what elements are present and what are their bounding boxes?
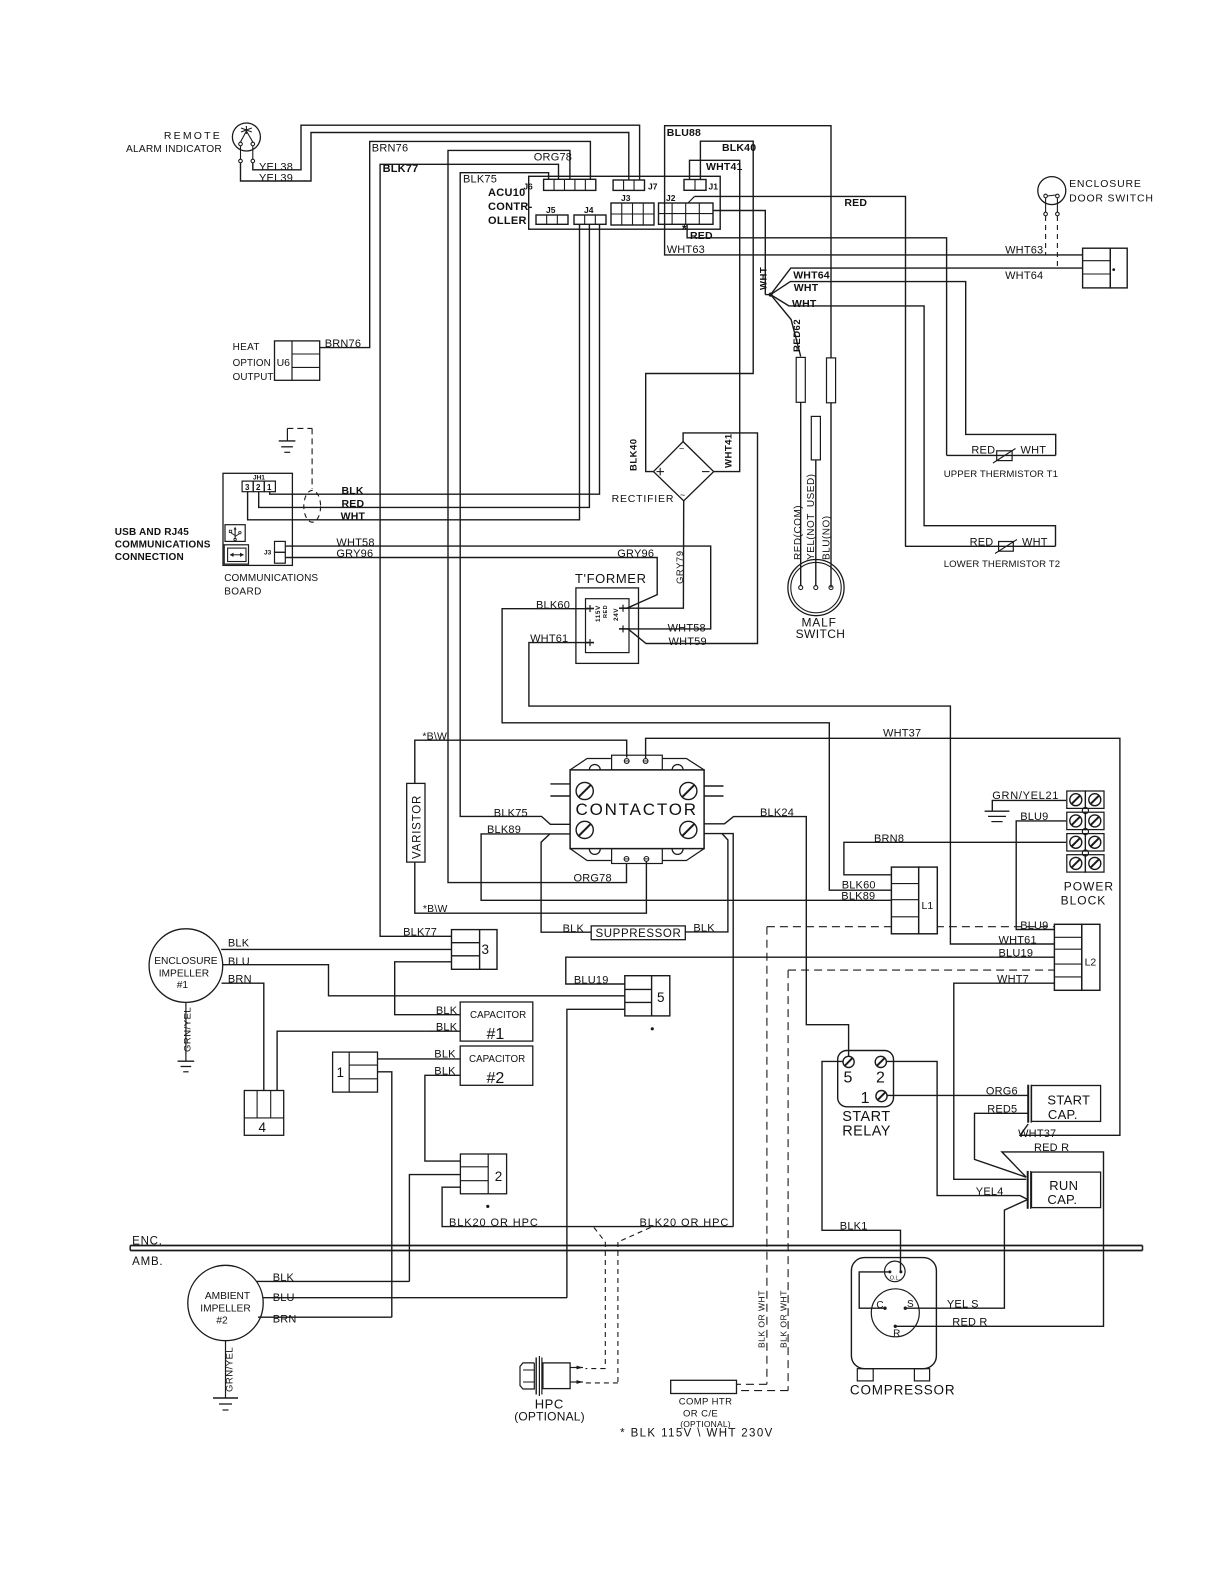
svg-text:WHT: WHT xyxy=(759,267,770,290)
svg-text:VARISTOR: VARISTOR xyxy=(412,795,424,859)
svg-text:3: 3 xyxy=(245,483,250,492)
svg-text:U6: U6 xyxy=(277,357,291,369)
svg-text:BLU19: BLU19 xyxy=(999,947,1034,959)
svg-text:J1: J1 xyxy=(709,182,719,192)
svg-text:*B\W: *B\W xyxy=(422,731,447,743)
svg-text:BRN76: BRN76 xyxy=(325,338,361,350)
svg-text:LOWER THERMISTOR T2: LOWER THERMISTOR T2 xyxy=(944,559,1061,570)
svg-text:~: ~ xyxy=(679,444,684,454)
svg-text:BLK40: BLK40 xyxy=(722,142,756,154)
svg-text:#2: #2 xyxy=(487,1070,505,1087)
svg-text:BLU9: BLU9 xyxy=(1020,920,1048,932)
svg-text:RED: RED xyxy=(844,197,867,209)
svg-text:OR C/E: OR C/E xyxy=(683,1409,718,1420)
svg-text:CAP.: CAP. xyxy=(1048,1107,1078,1122)
svg-text:BLK: BLK xyxy=(273,1272,295,1284)
svg-text:J2: J2 xyxy=(666,193,676,203)
svg-text:BLU: BLU xyxy=(228,956,250,968)
svg-text:RED: RED xyxy=(690,230,713,242)
svg-text:115V: 115V xyxy=(595,605,602,622)
svg-text:ORG6: ORG6 xyxy=(986,1086,1018,1098)
svg-text:POWER: POWER xyxy=(1064,880,1114,894)
svg-text:AMB.: AMB. xyxy=(132,1256,163,1268)
svg-text:BLK77: BLK77 xyxy=(403,927,437,939)
svg-text:USB AND RJ45: USB AND RJ45 xyxy=(115,527,190,538)
svg-text:BLK: BLK xyxy=(228,938,250,950)
svg-text:BLK OR WHT: BLK OR WHT xyxy=(779,1290,789,1348)
svg-text:WHT41: WHT41 xyxy=(724,433,735,468)
svg-text:WHT63: WHT63 xyxy=(1005,245,1043,257)
svg-text:BLK: BLK xyxy=(693,922,715,934)
svg-text:SWITCH: SWITCH xyxy=(796,627,846,641)
svg-text:J4: J4 xyxy=(584,205,594,215)
svg-text:* BLK 115V \ WHT 230V: * BLK 115V \ WHT 230V xyxy=(620,1428,774,1440)
svg-text:ALARM INDICATOR: ALARM INDICATOR xyxy=(126,144,222,155)
svg-text:GRN/YEL: GRN/YEL xyxy=(225,1347,236,1392)
svg-text:BLK77: BLK77 xyxy=(383,163,419,175)
svg-text:GRY79: GRY79 xyxy=(675,551,686,584)
svg-text:WHT61: WHT61 xyxy=(999,935,1037,947)
svg-text:2: 2 xyxy=(495,1169,503,1184)
svg-text:WHT61: WHT61 xyxy=(530,633,568,645)
svg-text:BLK OR WHT: BLK OR WHT xyxy=(757,1290,767,1348)
svg-text:BLK1: BLK1 xyxy=(840,1221,868,1233)
svg-text:COMP HTR: COMP HTR xyxy=(679,1397,733,1408)
svg-text:WHT64: WHT64 xyxy=(793,270,830,282)
svg-text:WHT64: WHT64 xyxy=(1005,270,1043,282)
svg-text:BLK: BLK xyxy=(436,1005,458,1017)
svg-text:BLK20 OR HPC: BLK20 OR HPC xyxy=(640,1217,730,1229)
svg-text:#1: #1 xyxy=(487,1026,505,1043)
svg-text:RED62: RED62 xyxy=(792,319,803,352)
svg-text:WHT37: WHT37 xyxy=(883,728,921,740)
svg-text:#2: #2 xyxy=(216,1315,228,1326)
svg-text:24V: 24V xyxy=(613,608,620,621)
svg-text:2: 2 xyxy=(256,483,261,492)
svg-text:ORG78: ORG78 xyxy=(534,152,572,164)
svg-text:WHT7: WHT7 xyxy=(997,974,1029,986)
svg-text:~: ~ xyxy=(680,490,685,500)
svg-text:CONNECTION: CONNECTION xyxy=(115,552,184,563)
svg-text:BLK89: BLK89 xyxy=(487,824,521,836)
svg-text:GRN/YEL21: GRN/YEL21 xyxy=(992,790,1059,802)
svg-text:R: R xyxy=(893,1329,900,1340)
svg-text:ORG78: ORG78 xyxy=(574,873,612,885)
svg-text:BLU88: BLU88 xyxy=(667,127,701,139)
svg-text:1: 1 xyxy=(337,1065,345,1080)
svg-text:*: * xyxy=(682,222,687,236)
svg-text:BRN: BRN xyxy=(273,1314,297,1326)
svg-text:BLK40: BLK40 xyxy=(628,438,639,471)
svg-text:WHT58: WHT58 xyxy=(668,623,706,635)
svg-text:BLU9: BLU9 xyxy=(1020,811,1048,823)
svg-text:BLK75: BLK75 xyxy=(463,174,497,186)
svg-text:*B\W: *B\W xyxy=(423,903,448,915)
svg-text:GRY96: GRY96 xyxy=(617,548,654,560)
svg-text:GRY96: GRY96 xyxy=(336,548,373,560)
svg-text:L2: L2 xyxy=(1085,956,1097,968)
svg-text:BLK: BLK xyxy=(342,485,364,497)
svg-text:(OPTIONAL): (OPTIONAL) xyxy=(514,1409,585,1423)
svg-text:BLOCK: BLOCK xyxy=(1061,894,1107,908)
svg-text:WHT37: WHT37 xyxy=(1018,1128,1056,1140)
svg-text:HEAT: HEAT xyxy=(233,342,260,353)
svg-text:BLU19: BLU19 xyxy=(574,974,609,986)
svg-text:O.L.: O.L. xyxy=(890,1276,901,1282)
svg-text:J3: J3 xyxy=(621,193,631,203)
svg-text:ACU10: ACU10 xyxy=(488,187,526,199)
svg-text:CAP.: CAP. xyxy=(1047,1192,1077,1207)
svg-text:5: 5 xyxy=(844,1070,853,1087)
svg-text:3: 3 xyxy=(482,942,490,957)
svg-text:1: 1 xyxy=(861,1090,870,1107)
svg-text:WHT63: WHT63 xyxy=(667,244,705,256)
svg-text:RED: RED xyxy=(342,498,365,510)
svg-text:1: 1 xyxy=(267,483,272,492)
svg-text:4: 4 xyxy=(259,1120,267,1135)
svg-text:RECTIFIER: RECTIFIER xyxy=(612,493,675,505)
svg-text:REMOTE: REMOTE xyxy=(164,130,222,142)
svg-text:RUN: RUN xyxy=(1049,1178,1078,1193)
svg-text:SUPPRESSOR: SUPPRESSOR xyxy=(596,928,682,940)
svg-text:YEL(NOT_USED): YEL(NOT_USED) xyxy=(806,473,817,560)
svg-text:WHT: WHT xyxy=(341,510,366,522)
svg-text:BLK75: BLK75 xyxy=(494,808,528,820)
svg-text:J6: J6 xyxy=(523,182,533,192)
svg-text:CONTR-: CONTR- xyxy=(488,201,533,213)
svg-text:COMMUNICATIONS: COMMUNICATIONS xyxy=(224,573,318,584)
svg-text:YEL4: YEL4 xyxy=(976,1186,1004,1198)
svg-text:WHT: WHT xyxy=(792,298,817,310)
svg-text:CAPACITOR: CAPACITOR xyxy=(469,1054,525,1065)
svg-text:ENCLOSURE: ENCLOSURE xyxy=(1069,178,1142,190)
svg-text:RED: RED xyxy=(603,605,609,618)
svg-text:BLK24: BLK24 xyxy=(760,807,794,819)
svg-text:AMBIENT: AMBIENT xyxy=(205,1291,250,1302)
svg-text:S: S xyxy=(907,1299,914,1310)
svg-text:OPTION: OPTION xyxy=(233,358,271,369)
svg-text:IMPELLER: IMPELLER xyxy=(159,968,209,979)
svg-text:BLK: BLK xyxy=(563,923,585,935)
svg-text:BLU(NO): BLU(NO) xyxy=(822,515,833,560)
svg-text:2: 2 xyxy=(876,1070,885,1087)
svg-text:BOARD: BOARD xyxy=(224,587,262,598)
svg-text:GRN/YEL: GRN/YEL xyxy=(183,1007,194,1052)
svg-text:UPPER THERMISTOR T1: UPPER THERMISTOR T1 xyxy=(944,469,1058,480)
svg-text:OLLER: OLLER xyxy=(488,215,527,227)
svg-text:J7: J7 xyxy=(648,182,658,192)
svg-text:J3: J3 xyxy=(264,550,272,557)
svg-text:CAPACITOR: CAPACITOR xyxy=(470,1010,526,1021)
svg-text:JH1: JH1 xyxy=(253,475,265,482)
svg-text:5: 5 xyxy=(657,990,665,1005)
svg-text:BLU: BLU xyxy=(273,1292,295,1304)
svg-text:RED R: RED R xyxy=(1034,1142,1069,1154)
svg-text:#1: #1 xyxy=(177,980,189,991)
svg-text:RED: RED xyxy=(970,537,994,549)
svg-text:COMPRESSOR: COMPRESSOR xyxy=(850,1382,956,1397)
svg-text:WHT: WHT xyxy=(1021,445,1047,457)
svg-text:IMPELLER: IMPELLER xyxy=(200,1303,250,1314)
svg-text:C: C xyxy=(876,1300,883,1311)
svg-text:WHT: WHT xyxy=(1022,537,1048,549)
svg-text:BRN8: BRN8 xyxy=(874,833,904,845)
svg-text:J5: J5 xyxy=(546,205,556,215)
svg-text:YEL S: YEL S xyxy=(947,1299,979,1311)
svg-text:WHT59: WHT59 xyxy=(669,636,707,648)
svg-text:COMMUNICATIONS: COMMUNICATIONS xyxy=(115,540,211,551)
svg-text:RED5: RED5 xyxy=(987,1104,1017,1116)
svg-text:BRN: BRN xyxy=(228,974,252,986)
svg-text:BLK20 OR HPC: BLK20 OR HPC xyxy=(449,1217,539,1229)
svg-text:L1: L1 xyxy=(922,900,934,912)
svg-text:RED: RED xyxy=(971,445,995,457)
svg-text:WHT: WHT xyxy=(794,282,819,294)
svg-text:DOOR SWITCH: DOOR SWITCH xyxy=(1069,193,1154,205)
svg-text:BRN76: BRN76 xyxy=(372,143,408,155)
svg-text:OUTPUT: OUTPUT xyxy=(233,372,274,383)
svg-text:CONTACTOR: CONTACTOR xyxy=(576,800,698,819)
svg-text:BLK89: BLK89 xyxy=(841,891,875,903)
svg-text:RED(COM): RED(COM) xyxy=(793,505,804,560)
svg-text:RED R: RED R xyxy=(952,1317,987,1329)
svg-text:START: START xyxy=(1047,1093,1090,1108)
svg-text:T'FORMER: T'FORMER xyxy=(575,571,647,586)
svg-text:RELAY: RELAY xyxy=(842,1123,890,1139)
svg-text:YEL39: YEL39 xyxy=(259,173,293,185)
svg-text:BLK60: BLK60 xyxy=(536,599,570,611)
svg-text:WHT41: WHT41 xyxy=(706,161,743,173)
svg-text:ENCLOSURE: ENCLOSURE xyxy=(154,956,218,967)
